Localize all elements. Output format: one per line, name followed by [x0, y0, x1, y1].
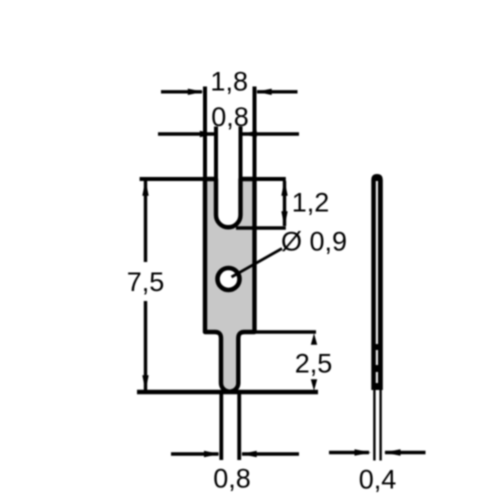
- svg-text:7,5: 7,5: [127, 267, 165, 297]
- dimension 7,5 vertical line upper segment: [144, 181, 147, 262]
- extension line slot right (x=240.5): [239, 127, 243, 180]
- dimension 1,2 vertical line: [283, 181, 286, 226]
- svg-text:2,5: 2,5: [295, 348, 333, 378]
- dimension 1,8 right line: [257, 90, 298, 93]
- dimension 7,5 vertical line lower segment: [144, 301, 147, 390]
- extension line pin left below baseline: [219, 394, 223, 460]
- extension line pin right below baseline: [237, 394, 241, 460]
- dimension 0,8 top left line: [158, 132, 214, 135]
- shoulder extension line (2,5 datum): [255, 330, 317, 333]
- dimension 0,4 right line: [385, 451, 426, 454]
- dimension 1,8 left line: [161, 90, 202, 93]
- side view extension line right: [379, 390, 381, 461]
- dimension 2,5 upper arrow: [311, 333, 317, 345]
- svg-text:0,4: 0,4: [359, 464, 397, 494]
- svg-text:0,8: 0,8: [213, 464, 251, 494]
- leader line for hole diameter: [232, 249, 283, 278]
- svg-text:1,8: 1,8: [210, 67, 248, 97]
- dimension 0,8 bottom left line: [171, 452, 219, 455]
- side view dark mark 1: [375, 344, 378, 350]
- front view: fork terminal silhouette: [205, 179, 255, 392]
- top edge extension right (1,2 datum): [241, 177, 286, 181]
- dimension 0,8 top right line: [242, 132, 299, 135]
- top edge extension left (7,5 datum): [140, 177, 216, 181]
- svg-text:Ø 0,9: Ø 0,9: [281, 226, 347, 256]
- side view dark mark 2: [375, 365, 378, 372]
- side view extension line left: [373, 390, 375, 461]
- extension line left outer (x=205): [203, 87, 207, 180]
- dimension 0,8 bottom right line: [242, 452, 299, 455]
- extension line slot bottom (1,2 datum): [236, 226, 286, 229]
- svg-text:1,2: 1,2: [292, 188, 330, 218]
- svg-text:0,8: 0,8: [211, 102, 249, 132]
- extension line right outer (x=254.5): [253, 87, 257, 180]
- hole Ø0.9: [218, 268, 240, 290]
- extension line slot left (x=216): [214, 127, 218, 180]
- dimension 0,4 left line: [329, 451, 369, 454]
- seating plane baseline: [137, 390, 318, 394]
- side view: flat pin edge-on: [371, 174, 383, 390]
- dimension 2,5 lower arrow: [311, 379, 317, 391]
- side view inner highlight slit: [376, 181, 378, 383]
